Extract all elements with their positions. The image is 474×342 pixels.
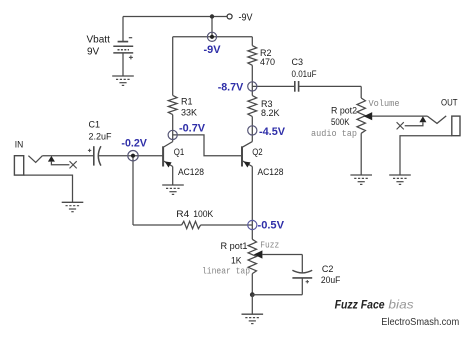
svg-text:Vbatt: Vbatt (87, 35, 111, 46)
svg-text:C1: C1 (89, 120, 101, 130)
svg-text:Q2: Q2 (252, 147, 263, 157)
svg-text:Fuzz Face bias: Fuzz Face bias (335, 298, 414, 312)
svg-text:-9V: -9V (204, 44, 222, 56)
svg-text:AC128: AC128 (178, 167, 204, 177)
svg-text:100K: 100K (193, 209, 213, 219)
svg-text:2.2uF: 2.2uF (89, 131, 113, 141)
svg-text:Fuzz: Fuzz (260, 241, 279, 251)
svg-text:R pot2: R pot2 (331, 106, 357, 116)
svg-text:audio tap: audio tap (311, 129, 357, 139)
svg-text:9V: 9V (87, 47, 100, 58)
svg-text:500K: 500K (331, 117, 350, 127)
svg-text:-0.2V: -0.2V (121, 138, 147, 150)
svg-text:IN: IN (15, 140, 24, 151)
svg-text:C2: C2 (322, 264, 334, 274)
svg-text:Volume: Volume (369, 99, 400, 109)
svg-text:Q1: Q1 (174, 147, 185, 157)
svg-text:R1: R1 (181, 97, 193, 107)
svg-text:-9V: -9V (239, 13, 253, 24)
svg-text:R4: R4 (176, 209, 189, 219)
svg-text:C3: C3 (292, 57, 304, 67)
svg-text:-4.5V: -4.5V (259, 126, 286, 138)
svg-text:R pot1: R pot1 (221, 241, 248, 251)
svg-text:-0.7V: -0.7V (179, 123, 206, 135)
svg-text:33K: 33K (181, 108, 197, 118)
svg-text:ElectroSmash.com: ElectroSmash.com (381, 317, 459, 328)
svg-text:-8.7V: -8.7V (218, 81, 244, 93)
svg-text:linear tap: linear tap (202, 266, 250, 276)
svg-text:0.01uF: 0.01uF (292, 69, 317, 79)
svg-text:-0.5V: -0.5V (258, 220, 285, 232)
svg-text:1K: 1K (231, 256, 242, 266)
svg-text:8.2K: 8.2K (261, 108, 280, 118)
svg-text:AC128: AC128 (258, 167, 284, 177)
svg-text:OUT: OUT (441, 98, 458, 109)
svg-text:470: 470 (260, 57, 275, 67)
svg-text:20uF: 20uF (321, 275, 341, 285)
